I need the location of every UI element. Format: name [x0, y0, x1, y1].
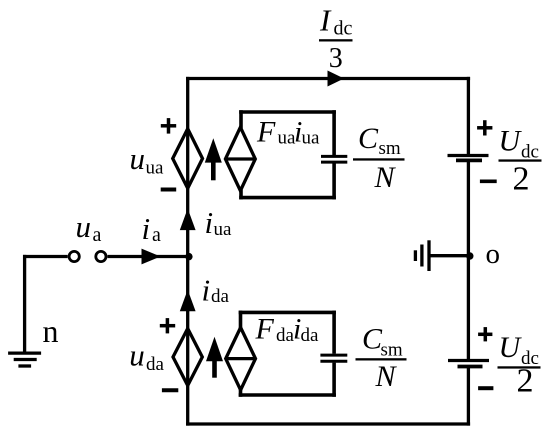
label i_ua: [205, 205, 233, 240]
box F_da right edge segments: [332, 311, 336, 397]
label u_ua: [130, 141, 165, 179]
wire bottom: [186, 422, 470, 425]
polarity + of bottom battery: [478, 327, 492, 341]
node dot o: [466, 252, 473, 259]
wire left vertical (to ground n): [23, 255, 26, 352]
wire top (Idc/3 branch): [186, 77, 470, 80]
label n: [43, 313, 59, 349]
svg-text:sm: sm: [379, 138, 401, 159]
polarity + of top battery: [477, 120, 492, 135]
svg-text:n: n: [43, 313, 59, 349]
arrowhead i_a on phase wire: [142, 249, 161, 265]
svg-text:u: u: [76, 209, 92, 244]
svg-text:da: da: [276, 325, 295, 346]
polarity + of u_ua: [161, 118, 176, 134]
svg-text:N: N: [375, 360, 398, 393]
label u_da: [129, 338, 164, 376]
dependent source diamond u_ua: [173, 129, 203, 189]
svg-text:i: i: [142, 211, 151, 246]
svg-text:dc: dc: [521, 142, 539, 163]
wire main vertical (phase leg through sources): [186, 77, 189, 426]
svg-text:ua: ua: [146, 158, 165, 179]
box F_ua right edge segments: [332, 110, 336, 199]
label C_sm over N (top): [353, 122, 405, 194]
polarity - of bottom battery: [478, 386, 493, 390]
label I_dc over 3: [319, 2, 353, 74]
current direction arrow inside u_da branch: [206, 337, 223, 378]
label i_a: [142, 211, 162, 246]
wire right middle (battery to battery through node o): [467, 160, 470, 360]
svg-text:3: 3: [329, 43, 343, 74]
arrowhead on top wire (Idc/3 direction): [328, 71, 345, 87]
terminal circle right: [96, 251, 106, 261]
svg-text:2: 2: [513, 161, 530, 198]
voltage source Udc/2 bottom (battery): [448, 361, 489, 367]
wire right upper (to top battery): [467, 77, 470, 156]
junction dot at phase node: [185, 253, 192, 260]
voltage source Udc/2 top (battery): [448, 156, 489, 161]
capacitor Csm/N top: [321, 156, 347, 162]
label F_ua i_ua: [256, 115, 320, 148]
svg-text:u: u: [130, 141, 146, 176]
ground o symbol: [415, 240, 429, 271]
svg-text:i: i: [205, 205, 214, 240]
current direction arrow inside u_ua branch: [205, 138, 222, 180]
box F_da bottom edge: [239, 393, 336, 397]
ground n: [8, 353, 41, 366]
svg-text:U: U: [499, 331, 523, 364]
polarity + of u_da: [160, 318, 175, 333]
dependent source diamond F_ua: [225, 127, 255, 191]
svg-text:u: u: [129, 338, 145, 373]
label F_da i_da: [255, 313, 320, 346]
wire phase to junction: [108, 255, 190, 258]
label U_dc over 2 (bottom): [498, 331, 541, 399]
svg-text:sm: sm: [381, 339, 403, 360]
svg-text:da: da: [146, 354, 165, 375]
polarity - of u_ua: [161, 188, 177, 192]
wire phase left stub: [23, 255, 68, 258]
dependent source diamond u_da: [173, 329, 202, 386]
svg-text:ua: ua: [214, 219, 233, 240]
svg-text:I: I: [319, 2, 332, 37]
svg-text:F: F: [256, 115, 276, 148]
label U_dc over 2 (top): [499, 125, 542, 198]
polarity - of top battery: [480, 180, 497, 184]
capacitor Csm/N bottom: [320, 355, 347, 361]
box F_ua bottom edge: [239, 196, 336, 200]
terminal circle left: [69, 251, 79, 261]
svg-text:C: C: [358, 122, 379, 155]
label i_da: [202, 273, 230, 308]
svg-text:a: a: [152, 224, 161, 246]
svg-text:da: da: [211, 286, 230, 307]
dependent source diamond F_da: [226, 328, 256, 391]
label C_sm over N (bottom): [356, 323, 407, 394]
box F_ua left edge segments: [239, 110, 243, 199]
arrowhead i_ua on main vertical: [180, 209, 196, 231]
svg-text:F: F: [255, 313, 275, 346]
svg-text:da: da: [301, 325, 320, 346]
svg-text:U: U: [499, 125, 523, 158]
svg-text:2: 2: [517, 362, 534, 399]
box F_da left edge segments: [239, 311, 243, 397]
svg-text:o: o: [486, 238, 501, 270]
box F_da top edge: [239, 311, 336, 315]
arrowhead i_da on main vertical: [180, 290, 196, 311]
svg-text:i: i: [202, 273, 211, 308]
ground o wire: [430, 254, 470, 257]
svg-text:a: a: [93, 224, 102, 246]
svg-text:ua: ua: [302, 128, 321, 149]
label o: [486, 238, 501, 270]
box F_ua top edge: [239, 110, 336, 114]
svg-text:dc: dc: [334, 18, 353, 40]
svg-text:N: N: [374, 161, 397, 194]
polarity - of u_da: [162, 388, 178, 392]
wire right lower (below bottom battery): [467, 367, 470, 426]
label u_a: [76, 209, 102, 246]
